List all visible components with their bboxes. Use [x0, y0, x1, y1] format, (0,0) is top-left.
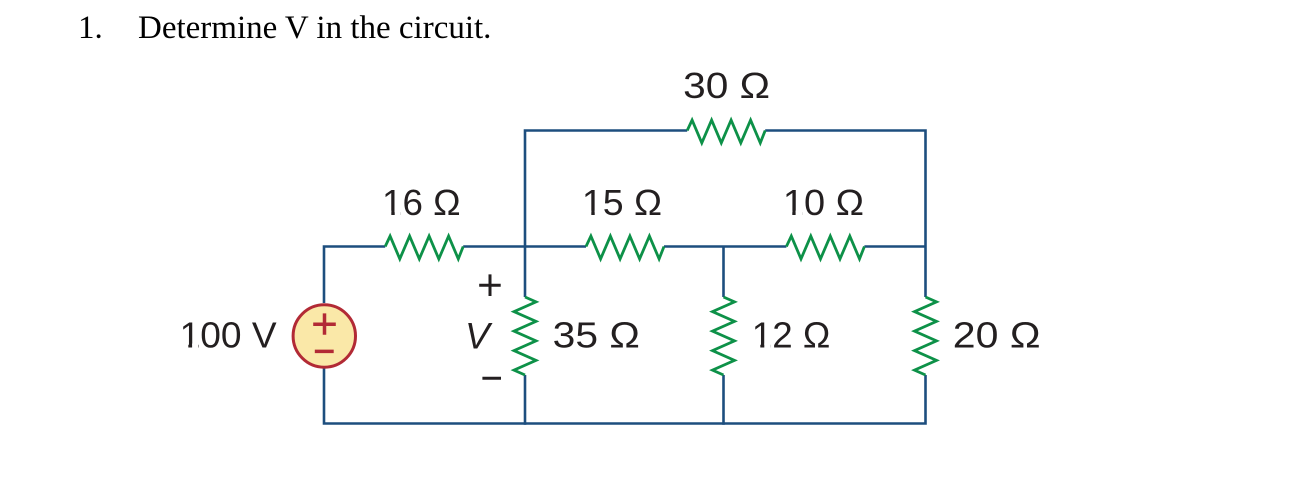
svg-text:20 Ω: 20 Ω: [953, 315, 1041, 356]
wire: left rail up from source to middle-rail corner, then right to R16: [324, 247, 385, 304]
resistor R35 (35 ohm) zigzag: [514, 297, 536, 375]
label: node V minus polarity mark: [482, 377, 501, 380]
wire: left rail from source bottom, bottom rail, up to R20 bottom lead: [324, 368, 926, 424]
svg-text:15 Ω: 15 Ω: [582, 182, 662, 223]
svg-text:10 Ω: 10 Ω: [783, 182, 864, 223]
resistor R16 (16 ohm) zigzag: [385, 236, 463, 259]
masks removing serif foot of digit 1 glyphs (target font has no foot): [181, 211, 802, 350]
svg-text:100 V: 100 V: [180, 315, 277, 356]
svg-text:V: V: [465, 316, 493, 357]
wire: riser from middle node up, then top branch left segment to R30: [525, 131, 687, 247]
title text: [0, 11, 1, 13]
wire: middle horizontal, between R15 and R10: [664, 245, 786, 248]
resistor R12 (12 ohm) zigzag: [713, 297, 735, 375]
wire: 12-ohm branch lower lead: [722, 375, 725, 425]
wire: 35-ohm branch upper lead: [524, 247, 527, 298]
resistor R30 (30 ohm) zigzag: [687, 120, 765, 143]
wire: 12-ohm branch upper lead: [722, 247, 725, 298]
voltage source VS1 (100 V) circle body: [293, 305, 355, 367]
voltage source plus sign: [313, 313, 336, 334]
svg-text:12 Ω: 12 Ω: [752, 315, 831, 356]
voltage source minus sign: [315, 350, 334, 354]
wire: top branch right segment from R30, down right rail to R20 top: [765, 131, 925, 298]
resistor R10 (10 ohm) zigzag: [786, 236, 864, 259]
svg-text:35 Ω: 35 Ω: [553, 315, 640, 356]
wire: 35-ohm branch lower lead: [524, 375, 527, 425]
resistor R15 (15 ohm) zigzag: [586, 236, 664, 259]
svg-text:30 Ω: 30 Ω: [683, 65, 770, 106]
wire: middle horizontal, R10 to right rail: [864, 245, 925, 248]
wire: middle horizontal, between R16 and R15: [463, 245, 586, 248]
label: node V plus polarity mark: [479, 274, 501, 296]
svg-text:16 Ω: 16 Ω: [382, 182, 461, 223]
resistor R20 (20 ohm) zigzag: [915, 297, 937, 375]
